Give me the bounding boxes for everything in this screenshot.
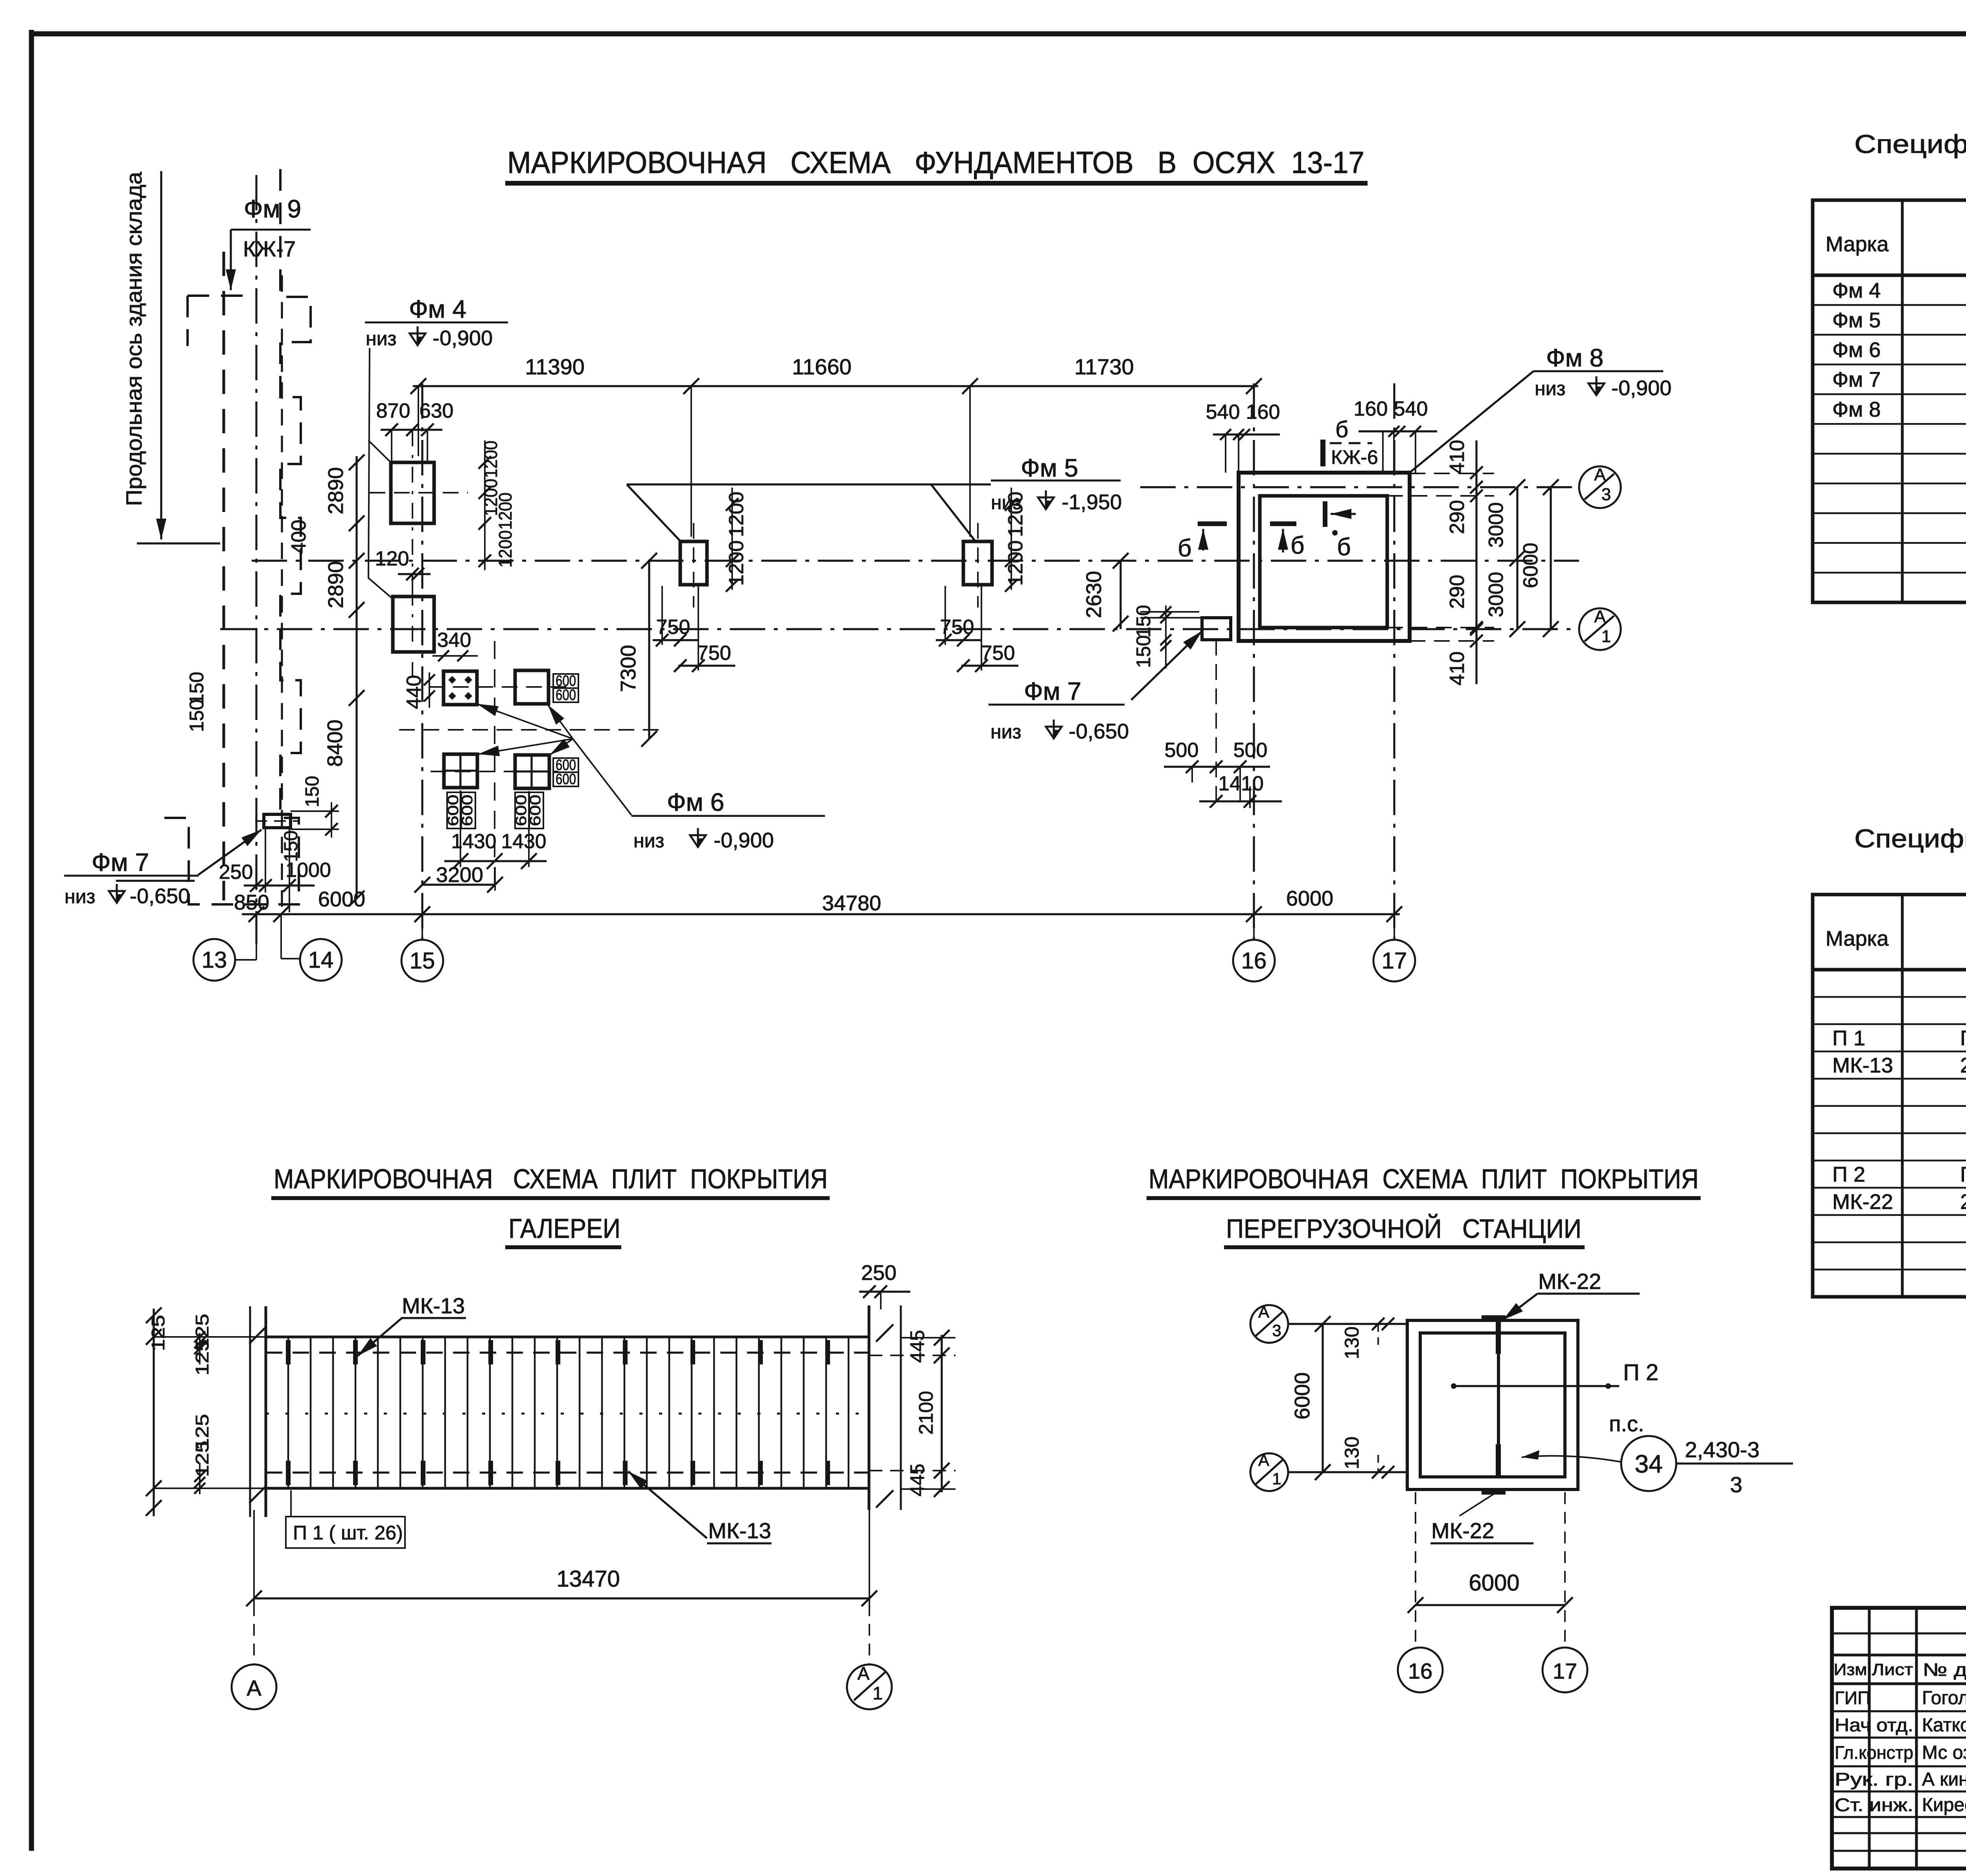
svg-text:750: 750 [981,642,1015,665]
svg-text:160: 160 [1354,398,1388,420]
svg-text:Рук. гр.: Рук. гр. [1835,1769,1913,1789]
svg-text:1410: 1410 [1218,772,1264,795]
svg-text:15: 15 [410,948,435,974]
svg-text:445: 445 [906,1330,928,1362]
svg-text:Гоголев: Гоголев [1922,1688,1966,1708]
svg-text:34780: 34780 [822,891,881,915]
svg-text:Киреев: Киреев [1922,1795,1966,1815]
svg-text:Фм 7: Фм 7 [1024,677,1081,705]
svg-text:Ст. инж.: Ст. инж. [1835,1795,1913,1815]
svg-text:МК-13: МК-13 [1832,1054,1893,1077]
svg-text:МАРКИРОВОЧНАЯ СХЕМА ПЛИТ ПО: МАРКИРОВОЧНАЯ СХЕМА ПЛИТ ПОКРЫТИЯ [1149,1164,1699,1194]
svg-text:-0,650: -0,650 [130,884,190,908]
svg-text:6000: 6000 [318,887,365,911]
svg-text:А: А [1258,1303,1269,1321]
svg-text:ГОСТ 22701.1-77: ГОСТ 22701.1-77 [1960,1163,1966,1186]
svg-text:1200: 1200 [480,441,501,478]
svg-text:б: б [1335,417,1348,442]
svg-text:16: 16 [1241,948,1267,974]
svg-text:1: 1 [1272,1469,1281,1488]
svg-text:600: 600 [556,771,576,788]
svg-text:1430: 1430 [451,830,497,853]
svg-text:Спецификация элементов к ма: Спецификация элементов к маркировочным с… [1854,824,1966,853]
svg-text:низ: низ [366,328,396,350]
svg-text:МАРКИРОВОЧНАЯ СХЕМА ПЛИТ П: МАРКИРОВОЧНАЯ СХЕМА ПЛИТ ПОКРЫТИЯ [274,1164,828,1194]
svg-text:б: б [1337,534,1351,561]
svg-text:120: 120 [375,547,409,570]
svg-text:А: А [247,1675,261,1700]
svg-text:850: 850 [234,891,269,914]
svg-text:Фм 6: Фм 6 [1832,338,1881,362]
svg-text:7300: 7300 [617,645,640,692]
svg-text:8400: 8400 [323,720,347,767]
svg-text:низ: низ [64,886,95,908]
svg-text:445: 445 [906,1464,928,1496]
svg-text:Марка: Марка [1826,927,1889,950]
svg-text:низ: низ [1535,377,1565,400]
svg-text:Мс озова: Мс озова [1922,1742,1966,1763]
svg-text:2630: 2630 [1082,571,1106,618]
svg-text:МК-13: МК-13 [708,1518,771,1543]
svg-text:-1,950: -1,950 [1062,490,1122,514]
svg-text:Фм 5: Фм 5 [1832,308,1881,332]
svg-text:п.с.: п.с. [1609,1411,1644,1436]
svg-text:125: 125 [148,1315,168,1351]
svg-text:Продольная ось здания склада: Продольная ось здания склада [121,171,146,506]
svg-text:Фм 6: Фм 6 [667,788,724,816]
svg-text:Фм 4: Фм 4 [1832,279,1881,302]
svg-text:П 2: П 2 [1623,1360,1659,1385]
svg-text:3000: 3000 [1485,502,1508,548]
svg-text:340: 340 [437,629,471,652]
svg-text:6000: 6000 [1286,887,1333,910]
svg-text:150: 150 [281,830,302,862]
svg-text:3000: 3000 [1485,572,1508,617]
svg-text:2100: 2100 [915,1391,937,1434]
svg-text:Марка: Марка [1826,232,1889,256]
svg-text:13: 13 [202,947,227,973]
svg-text:400: 400 [287,520,310,554]
svg-text:6000: 6000 [1469,1570,1519,1596]
svg-text:750: 750 [697,642,731,665]
svg-text:290: 290 [1446,575,1469,609]
svg-text:34: 34 [1635,1450,1662,1478]
svg-text:низ: низ [990,721,1021,743]
svg-text:125: 125 [192,1339,212,1375]
svg-text:2.430-3 вып. 3: 2.430-3 вып. 3 [1960,1054,1966,1077]
svg-text:6000: 6000 [1290,1372,1314,1419]
svg-text:б: б [1290,532,1305,559]
svg-text:11660: 11660 [792,354,852,379]
svg-text:750: 750 [940,616,974,639]
svg-text:410: 410 [1446,652,1469,686]
svg-text:500: 500 [1165,739,1199,762]
svg-text:низ: низ [991,492,1022,514]
svg-text:1200: 1200 [495,530,515,568]
svg-text:КЖ-7: КЖ-7 [243,236,296,261]
svg-text:А кин: А кин [1922,1769,1966,1790]
svg-text:3200: 3200 [436,863,483,887]
svg-text:КЖ-6: КЖ-6 [1331,446,1378,468]
svg-text:МК-13: МК-13 [402,1293,465,1318]
svg-text:540: 540 [1394,398,1428,420]
svg-text:-0,900: -0,900 [433,326,493,350]
svg-text:410: 410 [1446,440,1469,474]
svg-text:17: 17 [1553,1659,1577,1683]
svg-text:1430: 1430 [501,830,547,853]
svg-text:МК-22: МК-22 [1832,1190,1893,1213]
svg-text:600: 600 [459,795,476,826]
svg-text:МК-22: МК-22 [1538,1269,1601,1294]
svg-text:№ докум: № докум [1923,1659,1966,1680]
svg-text:600: 600 [556,687,576,703]
svg-text:2890: 2890 [324,561,348,608]
svg-text:Нач отд.: Нач отд. [1835,1715,1913,1735]
svg-text:ГИП: ГИП [1835,1688,1870,1708]
svg-text:1200: 1200 [725,492,748,537]
svg-text:1200: 1200 [725,540,748,586]
svg-text:Катков: Катков [1922,1715,1966,1736]
svg-text:14: 14 [308,947,334,973]
svg-text:А: А [1258,1451,1269,1469]
svg-text:600: 600 [527,795,544,826]
svg-text:3: 3 [1730,1472,1742,1497]
svg-text:150: 150 [302,776,323,807]
svg-text:Гл.констр: Гл.констр [1835,1742,1913,1763]
svg-text:А: А [858,1663,870,1684]
svg-text:низ: низ [633,830,664,852]
svg-text:1200: 1200 [495,493,515,530]
svg-text:290: 290 [1446,500,1469,534]
svg-text:130: 130 [1341,1436,1363,1469]
svg-text:Спецификация элементов к ма: Спецификация элементов к маркировочной с… [1854,129,1966,158]
svg-text:Фм 9: Фм 9 [244,195,301,223]
svg-text:Фм 8: Фм 8 [1832,398,1881,421]
svg-text:2.430-3, вып. 3: 2.430-3, вып. 3 [1960,1190,1966,1213]
svg-text:1: 1 [1602,627,1611,646]
svg-text:1: 1 [873,1683,883,1703]
svg-text:Изм: Изм [1834,1660,1867,1679]
svg-text:Фм 7: Фм 7 [92,848,149,876]
svg-text:17: 17 [1382,948,1407,974]
svg-text:П 1: П 1 [1832,1026,1865,1050]
svg-text:МК-22: МК-22 [1431,1518,1494,1543]
svg-text:630: 630 [420,400,454,422]
svg-text:Фм 8: Фм 8 [1546,344,1603,372]
svg-text:150: 150 [1132,635,1154,668]
svg-text:11730: 11730 [1074,354,1134,379]
svg-text:МАРКИРОВОЧНАЯ СХЕМА ФУНДАМ: МАРКИРОВОЧНАЯ СХЕМА ФУНДАМЕНТОВ В ОСЯХ 1… [507,145,1364,180]
svg-text:-0,650: -0,650 [1069,720,1129,743]
svg-text:Фм 4: Фм 4 [409,295,466,323]
svg-text:160: 160 [1246,401,1280,423]
svg-text:3: 3 [1272,1321,1281,1340]
svg-text:750: 750 [656,616,690,639]
svg-text:-0,900: -0,900 [1611,376,1671,400]
svg-text:250: 250 [219,861,253,884]
svg-text:6000: 6000 [1519,543,1542,588]
svg-text:ПЕРЕГРУЗОЧНОЙ СТАНЦИИ: ПЕРЕГРУЗОЧНОЙ СТАНЦИИ [1226,1213,1581,1244]
svg-text:125: 125 [192,1441,212,1477]
svg-text:250: 250 [861,1261,896,1285]
svg-text:1200: 1200 [1004,540,1027,586]
svg-text:2890: 2890 [324,467,348,514]
svg-text:П 1 ( шт. 26): П 1 ( шт. 26) [293,1522,403,1544]
svg-text:13470: 13470 [556,1566,620,1592]
svg-text:ПК-01-88: ПК-01-88 [1960,1026,1966,1050]
svg-text:Фм 5: Фм 5 [1021,454,1078,482]
svg-text:П 2: П 2 [1832,1163,1865,1186]
svg-text:130: 130 [1341,1326,1363,1359]
svg-text:б: б [1178,535,1192,562]
svg-text:Лист: Лист [1872,1660,1913,1679]
svg-text:870: 870 [376,400,411,422]
svg-text:Фм 7: Фм 7 [1832,368,1881,392]
svg-text:11390: 11390 [525,354,585,379]
svg-text:150: 150 [186,699,208,732]
svg-text:16: 16 [1408,1659,1432,1683]
svg-text:440: 440 [403,675,425,709]
svg-text:150: 150 [1132,605,1154,637]
svg-text:ГАЛЕРЕИ: ГАЛЕРЕИ [508,1213,620,1244]
svg-text:540: 540 [1206,401,1240,423]
svg-text:-0,900: -0,900 [714,828,774,852]
svg-text:500: 500 [1233,739,1268,762]
svg-text:3: 3 [1602,485,1611,504]
svg-text:2,430-3: 2,430-3 [1685,1437,1760,1462]
